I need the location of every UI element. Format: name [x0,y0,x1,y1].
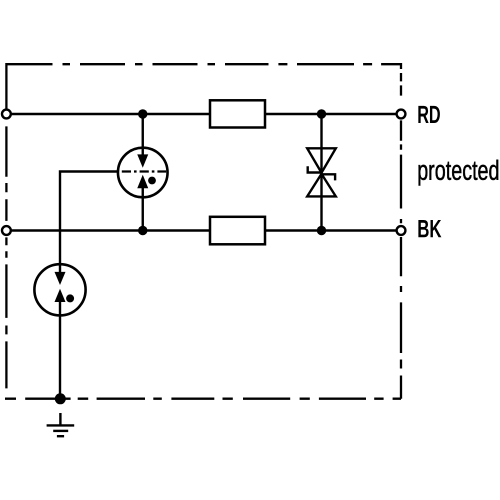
resistor R1 (decoupling, RD path) [210,100,265,127]
terminal unprotected RD (open circle, left top) [2,110,11,119]
resistor R2 (decoupling, BK path) [210,217,265,245]
wire vertical branch through gas discharge tube F1 [142,114,144,231]
junction node earth (on bottom border) [55,393,66,404]
junction node BK/F1 [138,226,147,235]
junction node RD/F1 [138,109,147,118]
gas discharge tube F1 (between RD and BK) [118,147,168,198]
ground (earth symbol) [47,413,75,436]
svg-text:BK: BK [417,215,442,243]
terminal protected BK (open circle, right bottom) [397,226,406,235]
wire BK line (bottom, y=230.5) [6,229,401,231]
svg-text:protected: protected [417,156,499,187]
device outline border left (dash-dot) [5,63,7,388]
terminal protected RD (open circle, right top) [397,110,406,119]
wire from F1 left side to ground branch (corner at 60,171.5) [60,172,121,399]
device outline border right (dash-dot) [400,63,402,399]
wire RD line (top, y=114) [6,113,401,115]
wire vertical branch through suppressor diode V1 [320,114,322,231]
junction node BK/V1 [317,226,326,235]
junction node RD/V1 [317,109,326,118]
gas discharge tube F2 (BK/ground branch to earth) [34,263,85,316]
device outline border bottom (dash-dot) [5,398,401,400]
terminal unprotected BK (open circle, left bottom) [2,226,11,235]
suppressor diode V1 (bidirectional TVS, between RD and BK) [307,148,336,196]
svg-text:RD: RD [417,102,440,129]
device outline border top (dash-dot) [6,63,401,65]
